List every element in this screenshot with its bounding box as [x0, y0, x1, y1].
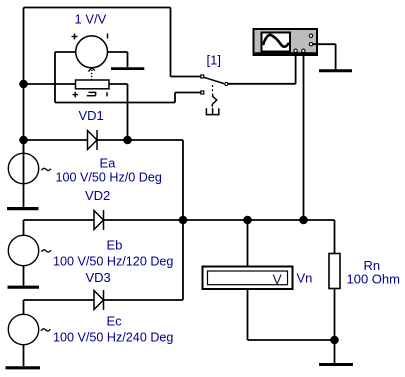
U1 input plus mark	[73, 92, 79, 98]
wire row3 bus right	[104, 220, 184, 300]
voltage source Eb	[8, 220, 38, 286]
label Rn value	[347, 272, 400, 287]
wire U1 output loop	[55, 52, 201, 103]
node C junction dot	[124, 137, 131, 144]
label Vn	[297, 271, 313, 286]
oscilloscope right terminals	[309, 34, 312, 46]
wire VD1 anode	[24, 139, 88, 141]
svg-text:VD1: VD1	[79, 108, 104, 123]
U1 input minus mark	[106, 92, 108, 96]
svg-text:VD2: VD2	[85, 188, 110, 203]
ground bar for Ec	[6, 366, 41, 369]
wire right drop to switch	[170, 8, 172, 77]
label VD2	[85, 188, 110, 203]
wire row3 bus	[24, 299, 95, 301]
oscilloscope XSC1 body	[254, 29, 318, 55]
resistor Rn	[329, 254, 340, 289]
switch S1 key symbol	[206, 94, 218, 114]
svg-text:VD3: VD3	[86, 270, 111, 285]
label 1 V/V	[75, 12, 107, 27]
label Ea value	[56, 171, 162, 185]
wire scope ground	[313, 44, 336, 69]
label Eb	[107, 238, 123, 253]
svg-text:1 V/V: 1 V/V	[75, 12, 107, 27]
switch S1 bottom terminal	[201, 91, 204, 94]
svg-text:[1]: [1]	[207, 53, 221, 68]
switch S1 common terminal	[225, 82, 228, 85]
svg-text:Ea: Ea	[100, 156, 117, 171]
switch S1 blade	[204, 77, 224, 83]
svg-text:Ec: Ec	[107, 314, 123, 329]
label VD3	[86, 270, 111, 285]
wire cathode bus drop	[182, 140, 184, 220]
switch S1 key link dashed	[212, 85, 214, 94]
label Ec	[107, 314, 123, 329]
svg-text:100 V/50 Hz/120 Deg: 100 V/50 Hz/120 Deg	[53, 255, 173, 269]
ground bar for Eb	[8, 286, 40, 289]
wire top horizontal	[24, 7, 171, 9]
switch S1 top terminal	[201, 75, 204, 78]
wire U1 output left	[55, 51, 76, 53]
label Eb value	[53, 255, 173, 269]
Ea sine mark	[42, 168, 51, 170]
svg-text:100 Ohm: 100 Ohm	[347, 272, 400, 287]
svg-text:100 V/50 Hz/240 Deg: 100 V/50 Hz/240 Deg	[53, 331, 173, 345]
node E junction dot	[244, 217, 251, 224]
label [1]	[207, 53, 221, 68]
ground bar for U1	[111, 67, 144, 70]
U1 plus mark	[72, 34, 78, 40]
oscilloscope bottom terminals	[294, 49, 305, 52]
voltmeter V unit	[273, 271, 283, 287]
wire row2 bus right	[104, 219, 335, 221]
op-amp U1 VCVS output circle	[76, 36, 108, 68]
voltmeter Vn body	[203, 267, 293, 290]
wire voltmeter bottom	[248, 290, 335, 341]
ground bar for Ea	[7, 207, 39, 210]
node D junction dot	[180, 217, 187, 224]
wire Rn top	[334, 220, 336, 254]
wire VD1 cathode	[97, 139, 183, 141]
diode VD1	[88, 130, 98, 150]
node F junction dot	[300, 217, 307, 224]
node G junction dot	[331, 337, 338, 344]
node A junction dot	[20, 81, 27, 88]
svg-text:V: V	[273, 271, 283, 287]
label VD1	[79, 108, 104, 123]
wire voltmeter top	[247, 220, 249, 266]
ground bar for scope	[319, 69, 352, 72]
U1 input polarity glyph	[87, 92, 96, 95]
U1 minus mark	[107, 34, 109, 39]
node B junction dot	[20, 137, 27, 144]
wire switch common to scope	[228, 54, 296, 84]
label Ec value	[53, 331, 173, 345]
Ec sine mark	[41, 329, 50, 331]
wire row2 bus left	[24, 219, 95, 221]
ground bar for Rn	[319, 363, 353, 366]
voltage source Ec	[8, 300, 38, 366]
wire left bus vertical	[23, 8, 25, 155]
U1 dotted control arrow	[88, 68, 95, 80]
wire U1 output right	[108, 52, 128, 67]
wire U1 input right	[109, 84, 128, 140]
diode VD2	[94, 210, 104, 230]
U1 input sense rectangle	[76, 80, 110, 89]
svg-text:Vn: Vn	[297, 271, 313, 286]
wire Rn bottom	[334, 289, 336, 364]
wire scope channel B	[303, 54, 305, 220]
svg-text:100 V/50 Hz/0 Deg: 100 V/50 Hz/0 Deg	[56, 171, 162, 185]
oscilloscope screen	[262, 33, 291, 52]
wire node A to U1 input	[24, 83, 76, 85]
label Rn	[364, 258, 381, 273]
diode VD3	[94, 290, 104, 310]
label Ea	[100, 156, 117, 171]
oscilloscope sine trace	[263, 35, 289, 47]
Eb sine mark	[42, 250, 51, 252]
voltage source Ea	[8, 140, 38, 207]
wire into switch top terminal	[171, 76, 201, 78]
svg-text:Eb: Eb	[107, 238, 123, 253]
